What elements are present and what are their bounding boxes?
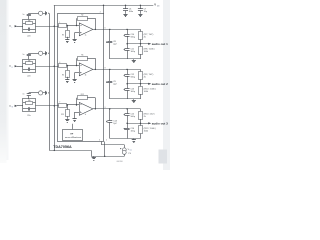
- ground right of mic M1: [45, 11, 49, 15]
- ground main: [92, 156, 96, 160]
- page bottom-right gray block: [159, 150, 168, 164]
- svg-text:2k: 2k: [144, 76, 146, 78]
- junction node output/C8: [109, 29, 110, 30]
- resistor inside Z2: [23, 60, 35, 64]
- wire Z2 output to IC pin 4: [35, 66, 57, 68]
- junction node R3 tap: [67, 25, 68, 26]
- input network Z1 box: [23, 20, 36, 33]
- ground at non-inverting input A1: [73, 38, 77, 42]
- capacitor C13: [124, 84, 136, 99]
- ground below C6: [123, 13, 127, 17]
- ground below R3: [65, 39, 69, 43]
- junction node mid C12: [126, 83, 127, 84]
- ground at non-inverting input A2: [73, 78, 77, 82]
- svg-text:audio out 2: audio out 2: [152, 83, 169, 86]
- wire IC pin 5 to lower rail: [104, 142, 106, 157]
- resistor inside Z3: [23, 100, 35, 105]
- HF oscillator block: [63, 130, 83, 141]
- svg-text:M: M: [12, 107, 14, 109]
- wire terminal to network Z1: [17, 26, 23, 28]
- svg-text:3 V: 3 V: [128, 153, 132, 155]
- svg-text:audio out 3: audio out 3: [152, 122, 169, 125]
- capacitor C4 in series above Z2: [23, 53, 39, 59]
- capacitor C1 in series above Z1: [23, 13, 39, 19]
- svg-text:7: 7: [59, 101, 60, 103]
- junction node feedback/output A1: [95, 29, 96, 30]
- svg-text:100µ: 100µ: [131, 91, 136, 93]
- node inverting input A3: [76, 104, 77, 105]
- ground group 3: [132, 139, 136, 143]
- svg-text:22n: 22n: [27, 115, 31, 117]
- capacitor C14: [106, 109, 118, 139]
- junction node R6 tap: [67, 65, 68, 66]
- junction node mid C15: [126, 123, 127, 124]
- svg-text:2µ2: 2µ2: [113, 123, 117, 125]
- ground group 2: [132, 99, 136, 103]
- wire non-inverting input A2: [75, 72, 80, 74]
- node input arrow Vin2: [15, 65, 18, 67]
- wire VDD drop to IC pin: [103, 5, 105, 14]
- resistor R4 (input): [57, 64, 79, 68]
- resistor R11 (input): [57, 104, 79, 108]
- junction node mid C10: [126, 43, 127, 44]
- capacitor C11: [124, 44, 136, 59]
- svg-text:2k: 2k: [144, 36, 146, 38]
- ground group 1: [132, 59, 136, 63]
- ground below R13: [65, 118, 69, 122]
- svg-text:33k: 33k: [28, 100, 31, 102]
- wire ground rail bottom: [49, 150, 91, 152]
- svg-text:10µ: 10µ: [144, 11, 148, 13]
- svg-text:5: 5: [106, 140, 107, 142]
- wire non-inverting input A3: [75, 112, 80, 114]
- capacitor inside Z3: [23, 107, 35, 110]
- capacitor C8: [106, 29, 117, 59]
- resistor R2 (feedback): [77, 15, 96, 30]
- svg-text:R: R: [12, 67, 14, 69]
- ground right of mic M2: [45, 51, 49, 55]
- wire group 1 bottom: [110, 58, 141, 60]
- svg-text:2µ2: 2µ2: [113, 43, 117, 45]
- resistor R5 (feedback): [77, 55, 96, 70]
- wire audio out node 1: [127, 43, 148, 45]
- input network Z3 box: [23, 99, 36, 112]
- wire mic M1 to ground: [43, 13, 45, 15]
- junction node output/C15: [126, 108, 127, 109]
- capacitor inside Z1: [23, 28, 35, 31]
- junction node mid ('R14', '2k2'): [140, 123, 141, 124]
- svg-text:9: 9: [105, 107, 106, 109]
- svg-text:2: 2: [100, 12, 101, 14]
- capacitor C7: [138, 5, 148, 13]
- svg-text:1n: 1n: [23, 14, 25, 16]
- wire group 2 bottom: [110, 98, 141, 100]
- svg-text:2µ2: 2µ2: [113, 83, 117, 85]
- svg-text:1n: 1n: [23, 54, 25, 56]
- wire op-amp A3 output to pin 9 and RC network: [93, 108, 141, 110]
- svg-text:1b: 1b: [85, 75, 87, 77]
- junction node on VDD rail at C7: [140, 5, 141, 6]
- resistor ('R7', '2k2'): [139, 29, 154, 43]
- resistor ('R14', '2k2'): [139, 109, 155, 123]
- capacitor C12: [124, 69, 136, 83]
- svg-text:1n: 1n: [23, 94, 25, 96]
- arrow audio out 3: [148, 122, 151, 124]
- resistor ('R8', '100k'): [139, 44, 155, 59]
- page left margin strip: [0, 0, 7, 163]
- svg-text:R13: R13: [61, 114, 64, 116]
- wire non-inverting input A1: [75, 32, 80, 34]
- svg-text:HF: HF: [70, 133, 74, 135]
- capacitor C15: [124, 109, 136, 123]
- svg-text:6: 6: [105, 27, 106, 29]
- ground at non-inverting input A3: [73, 118, 77, 122]
- node input arrow Vin1: [15, 25, 18, 27]
- svg-text:V: V: [154, 3, 156, 7]
- svg-text:22n: 22n: [27, 75, 31, 77]
- svg-text:8: 8: [105, 67, 106, 69]
- resistor R3 to ground: [62, 26, 70, 39]
- svg-text:1c: 1c: [85, 114, 87, 116]
- wire audio out node 2: [127, 83, 148, 85]
- node inverting input A2: [76, 65, 77, 66]
- wire lower rail to battery negative: [91, 156, 124, 158]
- resistor R12 (feedback): [77, 94, 96, 109]
- svg-text:100k: 100k: [144, 131, 148, 133]
- svg-text:560µ: 560µ: [131, 76, 136, 78]
- junction node output/C10: [126, 29, 127, 30]
- junction node output/C14: [109, 108, 110, 109]
- svg-text:22n: 22n: [27, 35, 31, 37]
- node inverting input A1: [76, 25, 77, 26]
- IC U1 outline (TDA7056A): [58, 14, 104, 142]
- capacitor C16: [124, 123, 136, 138]
- ground right of mic M3: [45, 91, 49, 95]
- junction node on bus at channel 2: [54, 66, 55, 67]
- resistor ('R10', '100k'): [139, 84, 156, 99]
- wire group 3 bottom: [110, 138, 141, 140]
- svg-text:oscillator: oscillator: [65, 136, 82, 139]
- junction node mid ('R7', '2k2'): [140, 43, 141, 44]
- svg-text:100k: 100k: [144, 91, 148, 93]
- svg-text:R12: R12: [81, 94, 84, 96]
- wire op-amp A2 output to pin 8 and RC network: [93, 69, 141, 71]
- junction node on VDD rail at C6: [125, 5, 126, 6]
- svg-text:560µ: 560µ: [131, 36, 136, 38]
- wire oscillator to internal node: [72, 124, 74, 130]
- svg-text:33k: 33k: [28, 60, 31, 62]
- op-amp A2: [79, 63, 93, 77]
- junction node mid ('R9', '2k2'): [140, 83, 141, 84]
- wire Z1 output to IC pin 1: [35, 26, 57, 28]
- junction node output/C12: [126, 69, 127, 70]
- svg-text:R2: R2: [81, 15, 83, 17]
- op-amp A1: [79, 23, 93, 37]
- capacitor C6: [123, 5, 133, 13]
- svg-text:100µ: 100µ: [131, 130, 136, 132]
- svg-text:audio out 1: audio out 1: [152, 43, 169, 46]
- wire bus (ground distribution): [49, 13, 51, 150]
- junction node VDD rail / IC supply: [103, 5, 104, 6]
- svg-text:DD: DD: [157, 5, 160, 7]
- op-amp A3: [79, 103, 93, 117]
- resistor R6 to ground: [62, 66, 70, 79]
- wire op-amp A1 output to pin 6 and RC network: [93, 29, 141, 31]
- junction node R13 tap: [67, 104, 68, 105]
- junction node pin5/lower rail: [104, 156, 105, 157]
- svg-text:TDA7056A: TDA7056A: [53, 145, 72, 149]
- wire VDD top rail: [54, 5, 154, 7]
- svg-text:2k: 2k: [144, 116, 146, 118]
- capacitor C9: [106, 69, 117, 99]
- svg-text:060196: 060196: [117, 161, 123, 163]
- junction node feedback/output A3: [95, 108, 96, 109]
- svg-text:560µ: 560µ: [131, 116, 136, 118]
- wire terminal to network Z3: [17, 105, 23, 107]
- ground below R6: [65, 79, 69, 83]
- svg-text:R6: R6: [62, 74, 64, 76]
- resistor ('R15', '100k'): [139, 123, 156, 138]
- resistor R1 (input): [57, 24, 79, 28]
- wire mic M3 to ground: [43, 92, 45, 94]
- wire audio out node 3: [127, 123, 148, 125]
- junction node bus2 bottom: [54, 150, 55, 151]
- node input arrow Vin3: [15, 105, 18, 107]
- arrow audio out 1: [148, 43, 151, 45]
- junction node on bus at channel 3: [54, 105, 55, 106]
- svg-text:3: 3: [99, 140, 100, 142]
- capacitor C10: [124, 29, 136, 43]
- resistor ('R9', '2k2'): [139, 69, 154, 83]
- wire IC pin 3 to battery positive: [101, 142, 103, 145]
- wire battery negative drop: [124, 155, 126, 157]
- resistor R13 to ground: [61, 105, 69, 118]
- microphone M2 circle: [39, 51, 43, 55]
- svg-text:100n: 100n: [129, 11, 133, 13]
- junction node feedback/output A2: [95, 69, 96, 70]
- svg-text:R5: R5: [81, 55, 83, 57]
- ground below C7: [138, 13, 142, 17]
- svg-text:bat: bat: [130, 148, 133, 151]
- wire Z3 output to IC pin 7: [35, 105, 57, 107]
- svg-text:100µ: 100µ: [131, 51, 136, 53]
- svg-text:L: L: [12, 27, 13, 29]
- svg-text:100k: 100k: [144, 51, 148, 53]
- svg-text:33k: 33k: [28, 20, 31, 22]
- svg-text:R3: R3: [62, 34, 64, 36]
- arrow audio out 2: [148, 83, 151, 85]
- capacitor inside Z2: [23, 68, 35, 71]
- page right margin strip: [163, 0, 170, 170]
- battery BT1: [120, 148, 126, 154]
- junction node output/C9: [109, 69, 110, 70]
- capacitor C7 in series above Z3: [23, 93, 39, 99]
- wire rail corner down: [91, 150, 93, 156]
- microphone M3 circle: [39, 91, 43, 95]
- svg-text:1a: 1a: [85, 35, 87, 37]
- wire terminal to network Z2: [17, 66, 23, 68]
- microphone M1 circle: [39, 11, 43, 15]
- resistor inside Z1: [23, 20, 35, 24]
- input network Z2 box: [23, 60, 36, 73]
- junction node on bus at channel 1: [54, 26, 55, 27]
- wire bus (reference distribution): [54, 5, 56, 150]
- wire mic M2 to ground: [43, 53, 45, 55]
